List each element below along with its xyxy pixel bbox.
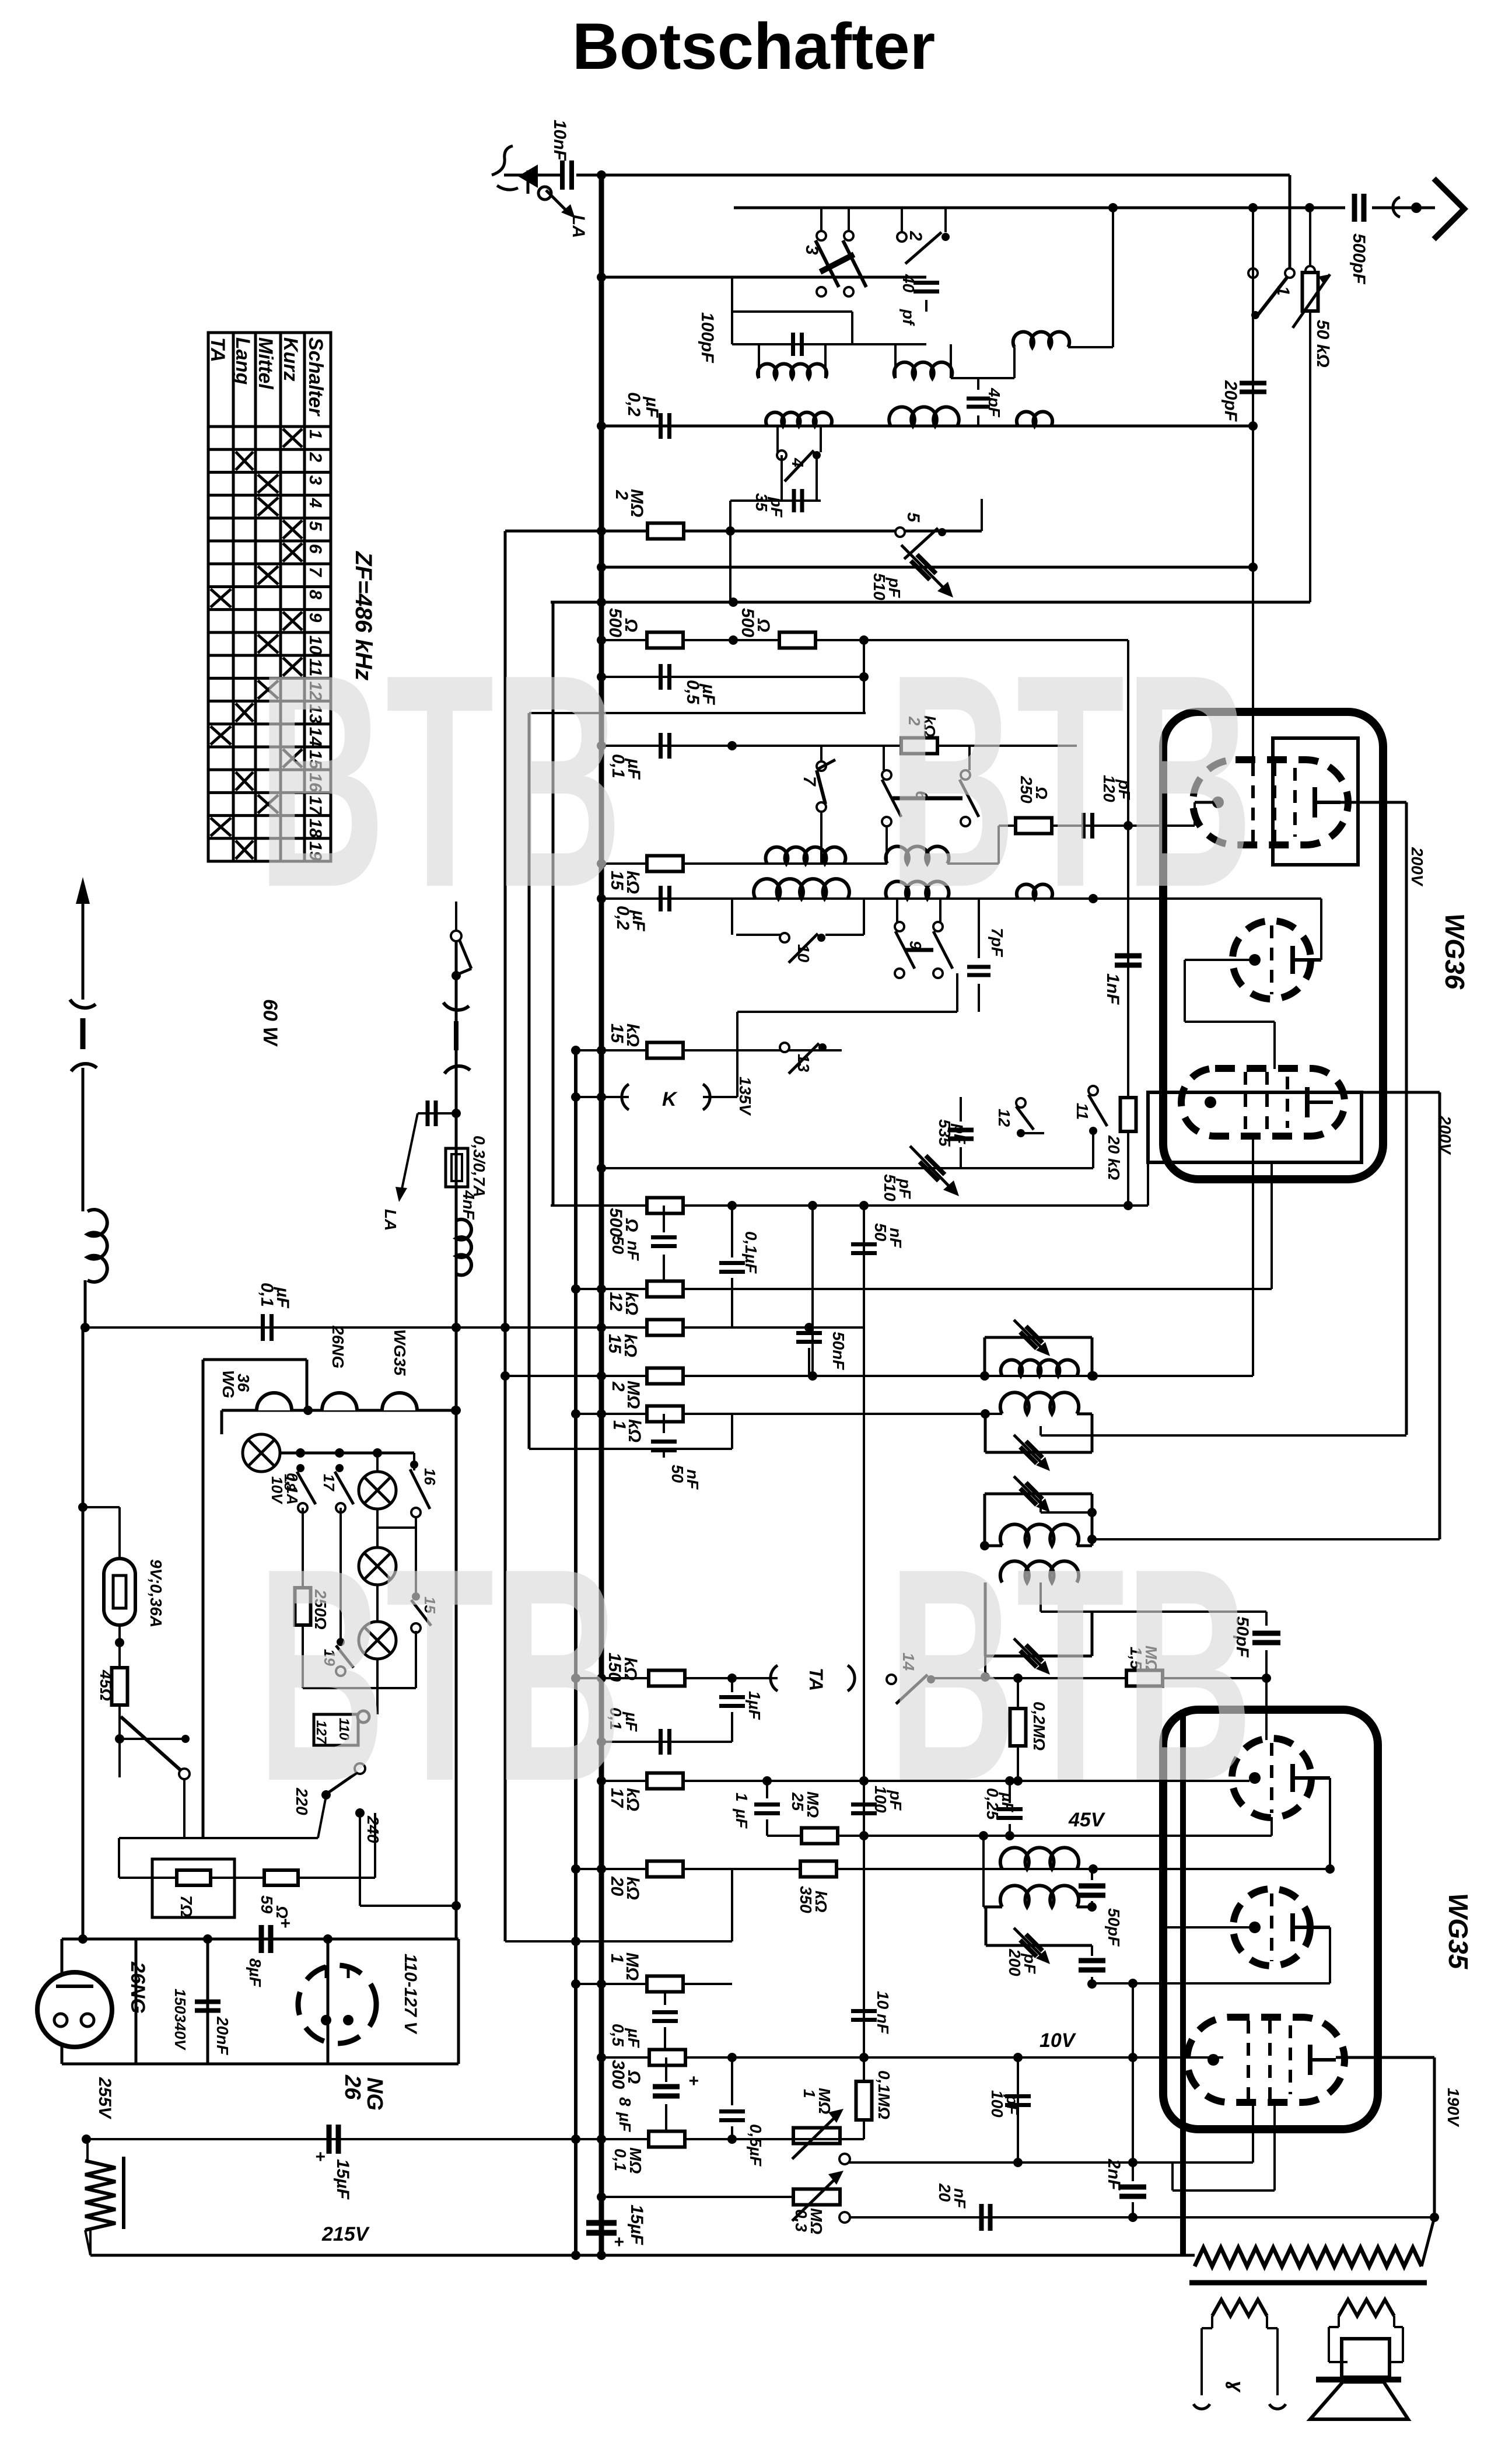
switch 15 bbox=[415, 1528, 417, 1593]
capacitor 0,1uF bbox=[659, 733, 663, 759]
capacitor 100pF c bbox=[1017, 2057, 1019, 2162]
lamp dial 4 bbox=[376, 1585, 379, 1622]
svg-text:15µF: 15µF bbox=[627, 2205, 646, 2245]
lamp dial 3 bbox=[359, 1547, 396, 1585]
mains switch lever bbox=[121, 1717, 181, 1770]
svg-text:20 kΩ: 20 kΩ bbox=[1105, 1135, 1123, 1180]
capacitor 20nF a bbox=[195, 2000, 220, 2004]
coil top right a bbox=[1112, 208, 1114, 347]
svg-text:MΩ: MΩ bbox=[626, 2147, 645, 2174]
svg-text:500pF: 500pF bbox=[1349, 233, 1368, 284]
antenna terminal bbox=[1393, 197, 1400, 217]
switch 3 double bbox=[820, 208, 822, 231]
resistor 1kOhm a bbox=[647, 1406, 683, 1422]
bus x907 bbox=[528, 713, 531, 1449]
wire y2618 bbox=[376, 1509, 379, 1547]
wire y1480 bbox=[601, 862, 887, 865]
break 2 bbox=[82, 1068, 85, 1211]
svg-text:+: + bbox=[315, 2147, 325, 2167]
tube box WG35 bbox=[1163, 1710, 1378, 2129]
resistor 0,1MOhm vert bbox=[856, 2081, 872, 2120]
svg-text:4: 4 bbox=[789, 457, 807, 467]
svg-text:26NG: 26NG bbox=[127, 1961, 149, 2014]
wire left rail bbox=[82, 1327, 85, 1939]
svg-text:+: + bbox=[688, 2071, 699, 2091]
speaker bbox=[1342, 2339, 1389, 2377]
svg-text:pF: pF bbox=[768, 497, 786, 518]
tube V6 pentode bbox=[1187, 2017, 1345, 2102]
svg-text:0,2: 0,2 bbox=[624, 392, 643, 417]
antenna arrow bbox=[1434, 179, 1464, 239]
wire x1481 long bbox=[863, 1206, 865, 2139]
svg-text:6: 6 bbox=[306, 544, 325, 554]
wire V2 anode bbox=[1320, 899, 1322, 960]
capacitor 40pF bars bbox=[914, 281, 939, 285]
capacitor 1nF bbox=[1115, 953, 1142, 959]
svg-text:nF: nF bbox=[887, 1228, 905, 1248]
switch 19 bbox=[339, 1508, 342, 1639]
wire y356 bbox=[734, 207, 1345, 209]
svg-text:8µF: 8µF bbox=[246, 1958, 264, 1987]
arrow LA top bbox=[546, 190, 567, 211]
wire y3400 bbox=[576, 1983, 732, 1985]
switch 10 bbox=[780, 933, 789, 942]
wire y1097 bbox=[601, 639, 1128, 641]
svg-text:16: 16 bbox=[421, 1468, 439, 1485]
T5 coil a bbox=[1000, 1847, 1079, 1869]
resistor 7 Ohm bbox=[177, 1870, 211, 1885]
resistor 7 Ohm box bbox=[152, 1859, 235, 1917]
coil top right b bbox=[1017, 412, 1052, 426]
svg-text:50 kΩ: 50 kΩ bbox=[1313, 320, 1332, 368]
svg-text:8: 8 bbox=[306, 589, 325, 599]
speaker field coil zigzag bbox=[1212, 2300, 1267, 2316]
capacitor 4pF bbox=[977, 378, 979, 390]
svg-text:BTB: BTB bbox=[888, 612, 1253, 951]
wire x2148 down bbox=[1252, 278, 1254, 426]
IFT2 coil bbox=[1000, 1392, 1079, 1414]
svg-text:1µF: 1µF bbox=[745, 1691, 764, 1720]
wire V2 cathode bbox=[1185, 959, 1255, 961]
switch table X marks bbox=[283, 429, 302, 447]
svg-text:nF: nF bbox=[624, 1241, 642, 1261]
capacitor 0,1uF b bbox=[731, 1206, 733, 1257]
svg-text:WG35: WG35 bbox=[391, 1329, 409, 1376]
svg-text:0,1µF: 0,1µF bbox=[742, 1231, 760, 1274]
svg-text:kΩ: kΩ bbox=[625, 1419, 644, 1442]
svg-text:Schalter: Schalter bbox=[304, 337, 327, 417]
aerial switch triangle bbox=[518, 165, 538, 188]
wire y2066 bbox=[551, 1204, 1148, 1207]
wire V4 grid bbox=[1265, 1678, 1268, 1740]
wire coil L2b link bbox=[951, 377, 1014, 379]
wire y1540 bbox=[601, 897, 1321, 900]
bus x987 bbox=[574, 1050, 577, 2255]
tube V5 triode bbox=[1233, 1889, 1310, 1966]
svg-text:pF: pF bbox=[885, 577, 904, 598]
T5 trimmer bbox=[1020, 1934, 1042, 1957]
svg-text:nF: nF bbox=[951, 2188, 969, 2209]
svg-text:110-127 V: 110-127 V bbox=[401, 1954, 420, 2035]
svg-text:BTB: BTB bbox=[257, 612, 622, 951]
aerial input squiggle bbox=[492, 146, 518, 190]
svg-text:7Ω: 7Ω bbox=[177, 1895, 195, 1917]
IFT2 trimmer bbox=[1020, 1441, 1042, 1463]
wire y3765 bbox=[601, 2196, 793, 2198]
svg-text:13: 13 bbox=[794, 1054, 813, 1072]
resistor 300Ohm bbox=[649, 2050, 685, 2066]
wire y910 bbox=[505, 530, 982, 533]
selector switch 220 bbox=[355, 1763, 365, 1774]
wire y3327 bbox=[505, 1940, 732, 1943]
svg-text:10: 10 bbox=[794, 944, 813, 963]
wire V6 grids down bbox=[1252, 2102, 1254, 2162]
svg-text:µF: µF bbox=[624, 758, 643, 780]
capacitor 50nF b bbox=[851, 1242, 877, 1246]
potentiometer 0,3MOhm bbox=[793, 2189, 840, 2205]
capacitor 0,5uF b bbox=[664, 1993, 666, 2005]
capacitor 10nF b bbox=[851, 2009, 877, 2013]
svg-text:26: 26 bbox=[340, 2074, 365, 2100]
lamp dial 1 bbox=[220, 1410, 223, 1434]
switch 18 bbox=[296, 1464, 304, 1472]
tube 26NG rect bbox=[37, 1972, 112, 2047]
thick heater wire bbox=[1180, 1710, 1186, 2255]
svg-text:µF: µF bbox=[273, 1287, 292, 1308]
fuse 0,3 0,7A bbox=[446, 1148, 468, 1187]
wire bottom left bbox=[89, 2230, 92, 2255]
capacitor 50nF a bbox=[663, 1206, 665, 1232]
wire V6 anode bbox=[1336, 2056, 1434, 2059]
svg-text:µF: µF bbox=[699, 683, 718, 705]
svg-text:26NG: 26NG bbox=[329, 1325, 347, 1368]
svg-text:15µF: 15µF bbox=[333, 2159, 352, 2200]
wire top y300 bbox=[576, 174, 1290, 177]
IFT2 tap bbox=[1039, 1426, 1042, 1435]
svg-text:1: 1 bbox=[306, 429, 325, 439]
bus main vertical bbox=[599, 174, 604, 2255]
transformer primary bbox=[1183, 2254, 1195, 2257]
capacitor 8uF b bbox=[665, 2057, 667, 2082]
wire y1160 bbox=[601, 676, 864, 678]
svg-text:3: 3 bbox=[306, 475, 325, 485]
svg-text:TA: TA bbox=[206, 337, 229, 362]
svg-text:7: 7 bbox=[306, 567, 325, 577]
svg-text:+: + bbox=[280, 1914, 290, 1933]
heater box outline bbox=[202, 1360, 205, 1838]
wire y3865 bottom bbox=[90, 2254, 1185, 2257]
wire 240 to box bbox=[359, 1813, 361, 1906]
capacitor 35pF bbox=[730, 499, 821, 502]
svg-text:0,5µF: 0,5µF bbox=[747, 2124, 765, 2167]
resistor 500 Ohm c bbox=[647, 1198, 683, 1214]
coil L3 bbox=[766, 413, 832, 426]
wire y3666 bbox=[86, 2138, 864, 2140]
wire y2762 bbox=[1041, 1610, 1266, 1613]
resistor 500 Ohm b bbox=[779, 633, 815, 648]
svg-text:µF: µF bbox=[622, 1711, 640, 1732]
capacitor 15uF left bbox=[327, 2125, 332, 2154]
switch 13 bbox=[780, 1043, 789, 1052]
wire y3203 bbox=[576, 1868, 1330, 1870]
svg-text:0,1MΩ: 0,1MΩ bbox=[875, 2070, 893, 2119]
wire y2358 bbox=[505, 1375, 1253, 1377]
svg-text:4pF: 4pF bbox=[985, 387, 1003, 418]
svg-text:5: 5 bbox=[904, 512, 923, 523]
svg-text:190V: 190V bbox=[1444, 2088, 1462, 2127]
wire y3150 bbox=[119, 1837, 318, 1839]
svg-text:TA: TA bbox=[806, 1668, 827, 1691]
capacitor 20nF b bbox=[979, 2204, 984, 2231]
svg-text:20pF: 20pF bbox=[1221, 380, 1240, 422]
svg-text:50pF: 50pF bbox=[1105, 1908, 1123, 1947]
svg-text:200V: 200V bbox=[1408, 847, 1426, 887]
svg-text:Mittel: Mittel bbox=[254, 337, 276, 390]
wire y2893 bbox=[303, 1687, 416, 1689]
switch 17 bbox=[335, 1464, 344, 1472]
IFT3 tap bbox=[1039, 1494, 1042, 1512]
heater bump 26NG bbox=[322, 1393, 357, 1410]
svg-text:BTB: BTB bbox=[888, 1505, 1253, 1844]
switch 5 bbox=[895, 527, 905, 537]
wire x2246 down bbox=[1309, 311, 1311, 602]
svg-text:kΩ: kΩ bbox=[621, 1334, 640, 1357]
T5 cap b bbox=[1091, 1945, 1093, 1956]
coil L8 bbox=[885, 882, 949, 899]
capacitor 0,2uF b bbox=[659, 886, 663, 911]
tube V4 triode bbox=[1232, 1738, 1311, 1818]
resistor 500 Ohm a bbox=[647, 633, 683, 648]
svg-text:17: 17 bbox=[320, 1474, 338, 1491]
capacitor 8uF bbox=[259, 1925, 264, 1953]
capacitor 2nF bbox=[1132, 2057, 1134, 2181]
wire y2985 bbox=[601, 1741, 732, 1743]
capacitor 20pF bbox=[1240, 381, 1266, 386]
svg-text:10 nF: 10 nF bbox=[874, 1991, 892, 2034]
capacitor 0,25uF bbox=[1009, 1781, 1011, 1803]
svg-text:50nF: 50nF bbox=[829, 1332, 848, 1370]
row 250Ohm 120pF bbox=[999, 825, 1195, 827]
capacitor 0,1uF left bbox=[261, 1314, 265, 1341]
wire y1734 bbox=[737, 1011, 957, 1013]
heater bump WG36 bbox=[257, 1393, 292, 1410]
svg-text:kΩ: kΩ bbox=[622, 1292, 641, 1315]
wire y730 bbox=[601, 425, 1253, 428]
wire V3 anode bbox=[1333, 1091, 1440, 1094]
wire y2423 bbox=[576, 1413, 1002, 1415]
switch 14 bbox=[848, 1678, 887, 1679]
svg-text:pF: pF bbox=[1021, 1953, 1039, 1974]
wire y2002 510pF row bbox=[601, 1167, 1093, 1169]
svg-text:Ω: Ω bbox=[624, 2070, 643, 2084]
svg-text:Ω: Ω bbox=[754, 618, 773, 632]
svg-text:Botschafter: Botschafter bbox=[572, 10, 935, 83]
svg-text:kΩ: kΩ bbox=[812, 1891, 830, 1913]
switch table grid bbox=[208, 333, 331, 861]
wire y2483 bbox=[529, 1448, 732, 1450]
T5 coil b bbox=[1000, 1885, 1079, 1907]
wire y1278 bbox=[601, 745, 884, 747]
switch 1 bbox=[1285, 268, 1294, 278]
IFT4 box bbox=[984, 1582, 987, 1656]
svg-text:45Ω: 45Ω bbox=[97, 1669, 115, 1701]
IFT3 trimmer bbox=[1020, 1483, 1042, 1505]
tube 26NG b dashed bbox=[298, 1965, 376, 2043]
wire lamp row bbox=[281, 1452, 414, 1455]
capacitor 1uF a bbox=[731, 1678, 733, 1692]
box 26NG cells bbox=[61, 1939, 64, 2064]
capacitor 0,5uF bbox=[659, 664, 663, 690]
coil L7 bbox=[754, 879, 849, 899]
capacitor 0,5uF c bbox=[731, 2057, 733, 2105]
T5 cap a bbox=[1091, 1869, 1093, 1880]
svg-text:µF: µF bbox=[733, 1808, 751, 1829]
capacitor 535pF bbox=[960, 1116, 961, 1168]
potentiometer 1MOhm bbox=[793, 2128, 840, 2144]
svg-text:12: 12 bbox=[995, 1109, 1013, 1127]
capacitor 10nF bbox=[560, 160, 565, 190]
bus x866 bbox=[504, 531, 507, 1941]
switch 9 double bbox=[896, 899, 898, 922]
heater bump WG35 bbox=[382, 1393, 417, 1410]
svg-text:µF: µF bbox=[629, 910, 648, 931]
svg-text:MΩ: MΩ bbox=[622, 1952, 642, 1980]
wire y3302 V5 cathode bbox=[1161, 1926, 1255, 1929]
tube V2 triode bbox=[1233, 921, 1311, 999]
svg-text:kΩ: kΩ bbox=[623, 1023, 642, 1047]
wire V1 anode bbox=[1340, 801, 1406, 804]
svg-text:36: 36 bbox=[235, 1374, 253, 1392]
resistor 50kOhm bbox=[1309, 208, 1311, 267]
selector circle bbox=[358, 1711, 369, 1723]
T5 box bbox=[985, 1907, 988, 1945]
resistor 25MOhm bbox=[801, 1828, 838, 1844]
IFT4 coil gray bbox=[1000, 1561, 1079, 1582]
svg-text:0,5: 0,5 bbox=[609, 2024, 627, 2046]
speaker voice zigzag bbox=[1339, 2300, 1394, 2316]
resistor 0,2MOhm vert bbox=[1017, 1678, 1019, 1709]
svg-text:255V: 255V bbox=[95, 2077, 114, 2120]
transformer core bbox=[1189, 2280, 1427, 2286]
svg-text:WG36: WG36 bbox=[1440, 913, 1470, 990]
box 26NG top bbox=[62, 1938, 459, 1941]
wire bbox=[82, 1049, 83, 1071]
svg-text:60 W: 60 W bbox=[259, 999, 281, 1047]
resistor 59 Ohm bbox=[264, 1870, 298, 1885]
svg-text:BTB: BTB bbox=[257, 1505, 622, 1844]
label 240 bbox=[355, 1808, 365, 1818]
wire y3052 bbox=[601, 1780, 1249, 1782]
capacitor 500pF bbox=[1352, 194, 1357, 222]
svg-text:100pF: 100pF bbox=[698, 312, 717, 363]
switch 6 8 double bbox=[883, 746, 885, 770]
resistor 250Ohm b bbox=[1016, 818, 1052, 834]
wire V1 grid top bbox=[1252, 208, 1254, 764]
wire y3800 bbox=[849, 2216, 1434, 2219]
svg-text:3: 3 bbox=[802, 245, 821, 255]
tube V1 envelope rect bbox=[1273, 738, 1358, 865]
wire x1683 bbox=[981, 499, 983, 531]
svg-text:LA: LA bbox=[569, 215, 588, 238]
resistor 1,5MOhm bbox=[1126, 1671, 1163, 1686]
wire y590 bbox=[732, 343, 926, 345]
wire y2638b bbox=[1091, 1512, 1093, 1546]
bus x948 bbox=[552, 602, 555, 1206]
svg-text:kΩ: kΩ bbox=[623, 871, 642, 894]
wire y972 bbox=[601, 566, 1253, 569]
svg-text:150340V: 150340V bbox=[171, 1989, 189, 2051]
IFT2 box bbox=[984, 1414, 987, 1452]
coil L9 bbox=[1017, 885, 1052, 899]
wire 220 down bbox=[325, 1794, 327, 1795]
svg-text:1nF: 1nF bbox=[1103, 973, 1122, 1005]
switch 4 bbox=[776, 426, 779, 452]
svg-text:MΩ: MΩ bbox=[627, 489, 646, 517]
tube box WG36 bbox=[1163, 712, 1383, 1179]
wire y2876 gray bbox=[935, 1677, 1266, 1679]
svg-text:Ω: Ω bbox=[621, 618, 640, 632]
svg-text:pF: pF bbox=[896, 1178, 914, 1199]
IFT1 box bbox=[984, 1337, 986, 1376]
IFT4 tap bbox=[1039, 1582, 1042, 1612]
svg-text:LA: LA bbox=[381, 1209, 400, 1231]
terminal hooks bbox=[1193, 2404, 1210, 2409]
capacitor 120pF bbox=[1081, 813, 1086, 839]
svg-text:ɣ: ɣ bbox=[1225, 2381, 1247, 2393]
svg-text:1: 1 bbox=[1273, 286, 1293, 296]
svg-text:Lang: Lang bbox=[232, 337, 254, 385]
resistor 15kOhm c bbox=[647, 1320, 683, 1336]
IFT3 coil bbox=[1000, 1524, 1079, 1546]
svg-text:K: K bbox=[662, 1088, 678, 1110]
wire bbox=[118, 1625, 121, 1668]
svg-text:2: 2 bbox=[306, 452, 325, 462]
wire y3218 row bbox=[118, 1838, 120, 1878]
svg-text:pf: pf bbox=[900, 309, 918, 326]
svg-text:kΩ: kΩ bbox=[623, 1877, 642, 1900]
capacitor 510pF tuning bbox=[911, 554, 936, 579]
svg-text:kΩ: kΩ bbox=[621, 1657, 640, 1681]
capacitor 50nF d bbox=[663, 1414, 665, 1433]
wire bbox=[84, 1280, 87, 1327]
svg-text:40: 40 bbox=[900, 274, 918, 293]
resistor 2kOhm bbox=[884, 745, 1077, 747]
wire bbox=[118, 1705, 121, 1777]
mains coil bbox=[87, 1210, 107, 1282]
LA branch bbox=[452, 1109, 461, 1118]
svg-text:pF: pF bbox=[1003, 2094, 1021, 2115]
wire y3146 bbox=[767, 1835, 1272, 1837]
wire y1800 bbox=[576, 1049, 842, 1051]
svg-text:pF: pF bbox=[951, 1123, 969, 1144]
svg-text:0,3/0,7A: 0,3/0,7A bbox=[470, 1136, 488, 1197]
svg-text:10V: 10V bbox=[1039, 2029, 1077, 2052]
svg-text:µF: µF bbox=[625, 2028, 643, 2048]
svg-text:MΩ: MΩ bbox=[804, 1791, 822, 1818]
svg-text:18: 18 bbox=[281, 1474, 299, 1491]
coil L4 bbox=[889, 407, 959, 426]
resistor 2MOhm b bbox=[647, 1368, 683, 1384]
tube V3 envelope rect bbox=[1148, 1092, 1361, 1162]
capacitor 510pF variable bbox=[919, 1155, 944, 1180]
svg-text:MΩ: MΩ bbox=[807, 2208, 825, 2234]
tube V3 hexode bbox=[1181, 1068, 1345, 1136]
ballast resistor bbox=[86, 2139, 89, 2161]
wire bbox=[504, 174, 561, 177]
resistor 350kOhm bbox=[800, 1861, 836, 1877]
resistor 20kOhm vert bbox=[1127, 640, 1129, 1099]
svg-text:215V: 215V bbox=[321, 2223, 370, 2245]
